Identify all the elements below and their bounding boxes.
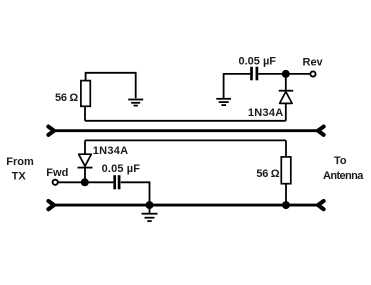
svg-text:1N34A: 1N34A bbox=[248, 107, 284, 119]
svg-text:Fwd: Fwd bbox=[46, 167, 68, 179]
svg-text:Antenna: Antenna bbox=[323, 170, 364, 182]
svg-text:1N34A: 1N34A bbox=[93, 145, 129, 157]
svg-text:Rev: Rev bbox=[303, 57, 324, 69]
svg-text:From: From bbox=[6, 156, 34, 168]
svg-text:To: To bbox=[334, 155, 347, 167]
svg-text:0.05 µF: 0.05 µF bbox=[239, 55, 277, 67]
svg-text:56 Ω: 56 Ω bbox=[55, 92, 78, 104]
svg-text:56 Ω: 56 Ω bbox=[256, 168, 279, 180]
svg-text:TX: TX bbox=[12, 170, 27, 182]
svg-text:0.05 µF: 0.05 µF bbox=[102, 163, 141, 175]
